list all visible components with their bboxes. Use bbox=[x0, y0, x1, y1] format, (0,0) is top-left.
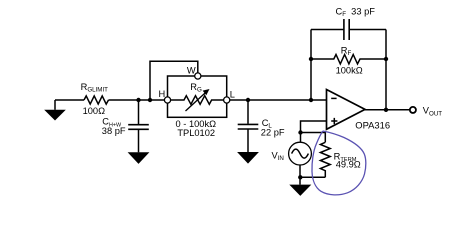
node (VIN / RTERM bottom) bbox=[298, 175, 302, 179]
source VIN bbox=[289, 142, 312, 165]
capacitor CH+W bbox=[128, 125, 149, 130]
variable resistor RG bbox=[171, 89, 224, 111]
wire (down to CH+W) bbox=[138, 100, 140, 124]
wire (feedback left vertical) bbox=[310, 30, 312, 101]
svg-text:38 pF: 38 pF bbox=[102, 126, 126, 136]
ground (CL) bbox=[237, 152, 259, 164]
node (junction to CH+W) bbox=[136, 98, 140, 102]
node (RF left) bbox=[309, 57, 313, 61]
svg-text:OPA316: OPA316 bbox=[355, 120, 390, 131]
svg-text:100kΩ: 100kΩ bbox=[336, 66, 363, 76]
ground (VIN) bbox=[289, 185, 311, 196]
resistor RGLIMIT bbox=[84, 96, 109, 104]
node (junction to W jumper) bbox=[148, 98, 152, 102]
svg-text:CF 33 pF: CF 33 pF bbox=[336, 7, 376, 19]
wire (W jumper loop) bbox=[150, 61, 198, 100]
node (junction to CL) bbox=[246, 98, 250, 102]
node (output junction) bbox=[384, 108, 388, 112]
resistor RTERM bbox=[320, 142, 330, 177]
node (RF right) bbox=[384, 57, 388, 61]
wire (output) bbox=[364, 109, 409, 111]
svg-text:49.9Ω: 49.9Ω bbox=[336, 159, 361, 169]
digital potentiometer U1 TPL0102 box bbox=[168, 76, 227, 117]
svg-text:TPL0102: TPL0102 bbox=[177, 128, 215, 138]
capacitor CL bbox=[238, 124, 259, 129]
svg-text:L: L bbox=[230, 89, 235, 99]
annotation (blue hand-drawn circle around RTERM) bbox=[312, 131, 366, 195]
wire (RTERM branch bottom) bbox=[301, 176, 326, 178]
wire (left ground to RGLIMIT) bbox=[55, 99, 84, 101]
terminal H bbox=[164, 97, 170, 103]
svg-text:22 pF: 22 pF bbox=[261, 128, 285, 138]
svg-text:100Ω: 100Ω bbox=[83, 106, 106, 116]
ground (input, left) bbox=[44, 100, 66, 121]
terminal L bbox=[224, 97, 230, 103]
wire (L terminal to op-amp inverting input) bbox=[230, 99, 327, 101]
wire (non-inverting input) bbox=[301, 121, 327, 133]
capacitor CF bbox=[311, 19, 386, 40]
svg-text:W: W bbox=[187, 65, 196, 75]
node (VIN / RTERM top) bbox=[298, 130, 302, 134]
ground (CH+W) bbox=[128, 152, 150, 164]
svg-text:H: H bbox=[159, 89, 166, 99]
terminal VOUT bbox=[410, 107, 416, 113]
wire (RGLIMIT to H terminal) bbox=[109, 99, 165, 101]
wire (RTERM branch top) bbox=[301, 133, 326, 143]
wire (CL to ground) bbox=[247, 129, 249, 152]
op-amp U2 OPA316 bbox=[327, 90, 366, 130]
wire (down to CL) bbox=[247, 100, 249, 124]
resistor RF bbox=[311, 55, 386, 64]
wire (feedback right vertical) bbox=[385, 30, 387, 110]
wire (VIN bottom to ground) bbox=[299, 165, 301, 185]
terminal W bbox=[195, 73, 201, 79]
node (feedback tap on inverting input) bbox=[309, 98, 313, 102]
wire (VIN stem top) bbox=[300, 133, 302, 143]
wire (CH+W to ground) bbox=[138, 129, 140, 152]
